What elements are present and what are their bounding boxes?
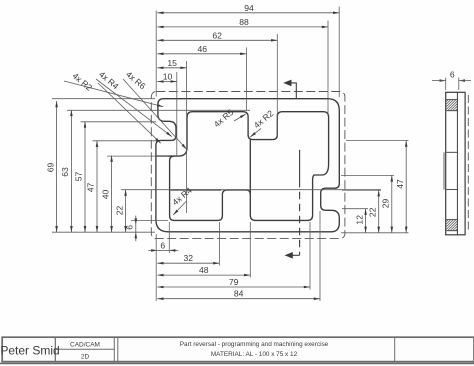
svg-text:84: 84 xyxy=(234,289,244,299)
dimension 79 bottom line xyxy=(157,286,310,289)
title block with author, CAD/CAM 2D, description, material xyxy=(0,337,474,363)
dimension 46 top line xyxy=(157,53,246,56)
pocket (lower-left window) with bridge to 48-wall xyxy=(170,156,251,220)
svg-text:47: 47 xyxy=(395,179,405,189)
dimension 69 left line xyxy=(55,101,58,232)
dimension 10 top line xyxy=(157,80,177,83)
bottom dims verticals xyxy=(155,234,157,301)
top dims verticals xyxy=(155,11,157,97)
dimension 48 bottom line xyxy=(157,274,250,277)
stock outline dashed (100x75 material) xyxy=(151,92,345,239)
dimension 22 right line xyxy=(377,190,380,233)
svg-text:CAD/CAM: CAD/CAM xyxy=(70,342,100,349)
dimension 40 left line xyxy=(110,156,113,233)
tool path centerline with exit marker (bottom) xyxy=(299,150,301,188)
svg-text:62: 62 xyxy=(212,31,222,41)
dimension 32 bottom line xyxy=(157,262,219,265)
dimension 29 right line xyxy=(391,175,394,232)
svg-text:10: 10 xyxy=(163,72,173,82)
svg-text:94: 94 xyxy=(244,3,254,13)
svg-text:46: 46 xyxy=(198,44,208,54)
svg-text:Part reversal - programming an: Part reversal - programming and machinin… xyxy=(180,341,329,348)
dimension value texts xyxy=(45,3,455,299)
svg-text:6: 6 xyxy=(450,70,455,80)
dimension 47 left line xyxy=(96,141,99,233)
svg-text:12: 12 xyxy=(354,215,364,225)
svg-text:63: 63 xyxy=(60,167,70,177)
svg-text:79: 79 xyxy=(229,277,239,287)
dimension 12 right line xyxy=(364,209,367,233)
top notch profile (y=6 level with 46/62 notch) xyxy=(193,112,329,140)
svg-text:Peter Smid: Peter Smid xyxy=(0,344,59,358)
dimension 94 top line xyxy=(157,12,339,15)
svg-text:MATERIAL: AL - 100 x 75 x 12: MATERIAL: AL - 100 x 75 x 12 xyxy=(211,351,298,358)
svg-text:29: 29 xyxy=(381,199,391,209)
part outer contour with S-notch and right S-mirror (closed) xyxy=(156,99,339,232)
svg-text:88: 88 xyxy=(239,17,249,27)
radius callout labels (4x R2, 4x R4, 4x R6, 4x R5, 4x R2, 4x R4) xyxy=(71,69,276,207)
right side view of 12mm plate with hatched sections xyxy=(416,78,474,235)
pocket top edge xyxy=(171,189,222,191)
dimension 57 left line xyxy=(84,121,87,232)
dimension 84 bottom line xyxy=(157,297,320,300)
dimension 63 left line xyxy=(70,110,73,232)
svg-text:48: 48 xyxy=(199,265,209,275)
leader lines for radius callouts xyxy=(64,79,261,215)
svg-text:6: 6 xyxy=(125,225,135,230)
dimension 15 top line xyxy=(157,67,186,70)
dimension 6 left line xyxy=(135,216,138,242)
svg-text:6: 6 xyxy=(160,241,165,251)
svg-text:22: 22 xyxy=(114,206,124,216)
svg-text:2D: 2D xyxy=(81,353,90,360)
dimension 6 side-view arrows xyxy=(440,79,466,82)
dimension 22 left line xyxy=(124,190,127,233)
svg-text:32: 32 xyxy=(184,253,194,263)
left dims horizontals xyxy=(52,98,155,100)
dimension 88 top line xyxy=(157,26,328,29)
dimension 47 right line xyxy=(405,141,408,233)
svg-text:69: 69 xyxy=(45,163,55,173)
inner left chain: 15-wall down into 40-level shelf xyxy=(156,112,192,156)
inner right vertical from top edge xyxy=(250,117,328,220)
svg-text:47: 47 xyxy=(86,183,96,193)
svg-text:22: 22 xyxy=(367,207,377,217)
dimension 62 top line xyxy=(157,39,277,42)
right dims horizontals xyxy=(346,140,409,142)
svg-text:40: 40 xyxy=(100,190,110,200)
dimension 6 bottom line xyxy=(148,249,178,252)
svg-text:57: 57 xyxy=(74,172,84,182)
svg-text:15: 15 xyxy=(167,58,177,68)
tool entry marker (top), filled arrow pointing left xyxy=(290,83,296,98)
extension lines (top, bottom, left, right dims) xyxy=(52,7,409,302)
